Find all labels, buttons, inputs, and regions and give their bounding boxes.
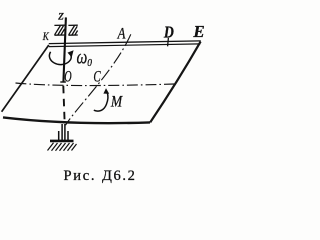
svg-text:O: O — [64, 68, 71, 85]
svg-text:A: A — [117, 26, 126, 43]
svg-text:z: z — [57, 9, 64, 24]
axis foot tick at O — [60, 81, 66, 83]
svg-text:C: C — [93, 69, 101, 86]
plate right edge — [150, 42, 200, 123]
bearing right block — [68, 25, 77, 35]
svg-text:K: K — [42, 29, 49, 43]
axis z solid part — [63, 17, 66, 82]
svg-text:Рис.: Рис. — [64, 168, 97, 184]
bearing left block — [54, 25, 64, 35]
svg-text:E: E — [192, 22, 204, 41]
svg-text:0: 0 — [87, 58, 92, 69]
ground hatching — [48, 143, 77, 151]
diagonal centerline (dash-dot) — [66, 34, 131, 125]
plate left edge — [2, 45, 49, 112]
svg-text:M: M — [110, 94, 123, 111]
svg-text:ω: ω — [77, 46, 88, 68]
ground line — [50, 140, 74, 143]
plate bottom edge — [3, 117, 150, 123]
svg-text:Д6.2: Д6.2 — [102, 168, 136, 184]
M arrowhead — [103, 88, 109, 94]
channel K-E inner line — [49, 44, 201, 47]
omega0 arrowhead — [68, 50, 74, 57]
centerline O-C (dash-dot) — [16, 83, 175, 86]
thrust bearing cup walls — [58, 131, 60, 140]
axis hidden part (dashed) — [63, 86, 64, 122]
shaft below plate (double line) — [61, 124, 63, 140]
moment M arrow — [94, 92, 108, 111]
omega0 rotation arrow — [49, 52, 71, 65]
tick at D — [167, 38, 170, 47]
channel K-E outer line — [49, 41, 201, 44]
